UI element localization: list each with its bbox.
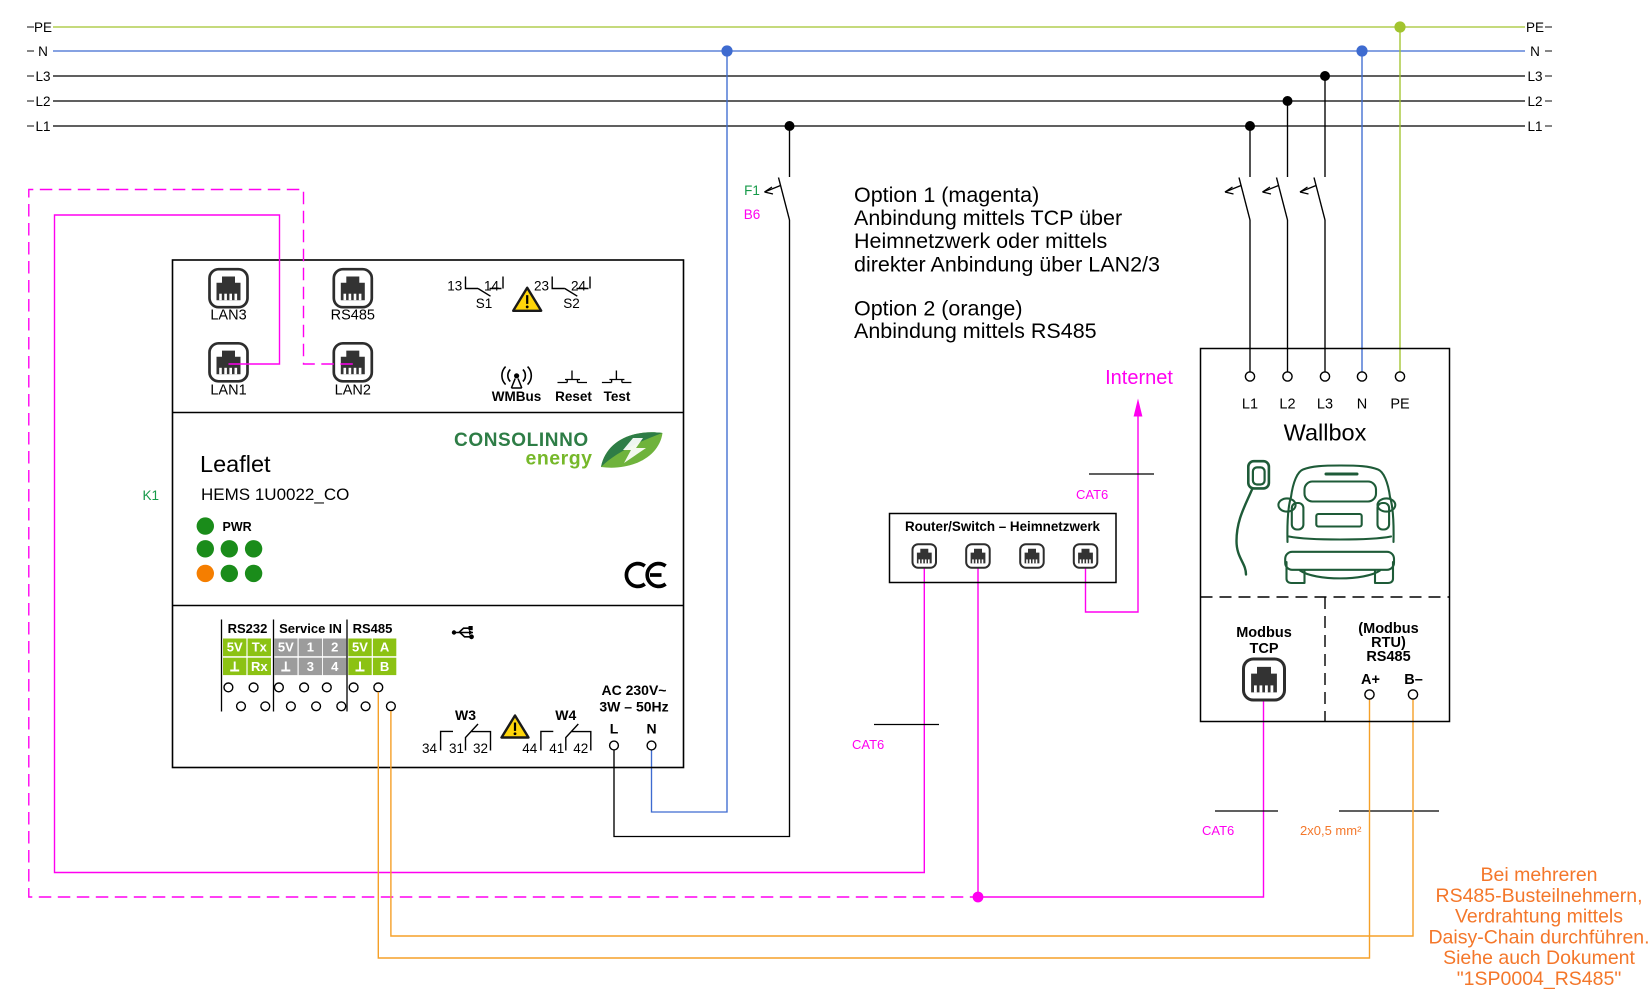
LED row2	[197, 540, 263, 557]
wire L1 drop to wallbox switch	[1249, 126, 1251, 372]
wallbox terminal L1 screw	[1245, 372, 1254, 381]
svg-text:N: N	[646, 721, 656, 737]
connector RS485 jack	[334, 269, 372, 307]
note option 2 text	[854, 296, 1097, 343]
warning triangle top	[513, 288, 541, 311]
note option 1 text	[854, 183, 1160, 276]
logo CONSOLINNO	[454, 430, 589, 451]
breaker F1 value B6	[744, 207, 761, 222]
contact S1 pin 14	[484, 279, 500, 294]
svg-text:L3: L3	[1317, 397, 1333, 413]
USB icon	[452, 626, 474, 639]
svg-text:L3: L3	[35, 69, 50, 84]
relay contact W4 label	[555, 707, 576, 723]
connector LAN3 label	[210, 308, 246, 324]
svg-text:Service IN: Service IN	[279, 621, 342, 636]
svg-text:HEMS 1U0022_CO: HEMS 1U0022_CO	[201, 485, 349, 504]
svg-text:RS485-Busteilnehmern,: RS485-Busteilnehmern,	[1435, 885, 1642, 907]
svg-text:F1: F1	[744, 183, 760, 198]
wallbox terminal PE label	[1390, 397, 1410, 413]
relay contact W4 pin 41	[549, 741, 564, 756]
wire N drop to wallbox	[1361, 51, 1363, 372]
junction magenta node	[973, 892, 984, 903]
svg-text:LAN3: LAN3	[210, 308, 246, 324]
junction N rail / leaflet N	[721, 45, 732, 56]
relay contact W3 pin 32	[473, 741, 488, 756]
wire F1 to leaflet L terminal	[614, 220, 790, 837]
svg-text:Wallbox: Wallbox	[1284, 420, 1367, 446]
cable marker CAT6 router1	[874, 724, 939, 726]
wallbox terminal L2 label	[1279, 397, 1295, 413]
net N label right	[1530, 44, 1540, 59]
wire PE drop to wallbox	[1399, 27, 1401, 372]
svg-text:13: 13	[447, 279, 462, 294]
svg-text:S2: S2	[563, 296, 580, 311]
net PE label left	[34, 20, 52, 35]
relay contact W3 symbol	[441, 724, 491, 751]
switch actuator arrow L3	[1300, 186, 1316, 195]
net N label left	[38, 44, 48, 59]
terminal L label	[610, 721, 619, 737]
svg-text:Option 2 (orange): Option 2 (orange)	[854, 296, 1023, 320]
wallbox terminal L1 label	[1242, 397, 1258, 413]
wire N rail to leaflet N terminal	[652, 51, 728, 812]
svg-text:CAT6: CAT6	[1076, 487, 1108, 502]
contact S2 symbol	[552, 277, 590, 297]
svg-text:Reset: Reset	[555, 389, 592, 404]
router port 1	[913, 544, 937, 568]
wire junction to router port2	[977, 566, 979, 897]
wallbox terminal PE screw	[1395, 372, 1404, 381]
terminal N label	[646, 721, 656, 737]
cable label CAT6 internet	[1076, 487, 1108, 502]
net L2 label right	[1527, 94, 1542, 109]
svg-text:Leaflet: Leaflet	[200, 451, 271, 477]
wire L2 drop to wallbox switch	[1287, 101, 1289, 372]
junction L1 rail / leaflet L via F1	[785, 121, 795, 131]
wire LAN1 to router port1 (magenta solid)	[55, 215, 925, 873]
device K1 label	[143, 488, 160, 503]
contact S1 label	[476, 296, 493, 311]
device router/switch box	[890, 514, 1117, 583]
svg-text:RS485: RS485	[331, 308, 375, 324]
wire L1 rail to F1	[789, 126, 791, 177]
svg-text:44: 44	[522, 741, 538, 756]
terminal header RS232	[228, 621, 268, 636]
svg-text:31: 31	[449, 741, 464, 756]
wire LAN2 dashed loop	[29, 190, 978, 898]
wallbox terminal B- label	[1404, 672, 1423, 688]
svg-text:Heimnetzwerk oder mittels: Heimnetzwerk oder mittels	[854, 229, 1107, 253]
logo energy	[526, 448, 593, 470]
wire router port4 to internet	[1086, 399, 1143, 613]
svg-text:2: 2	[331, 640, 338, 655]
svg-text:RS485: RS485	[353, 621, 393, 636]
junction L2 rail / wallbox L2	[1283, 96, 1293, 106]
svg-text:B: B	[380, 659, 389, 674]
svg-text:RS232: RS232	[228, 621, 268, 636]
terminal L screw	[610, 741, 619, 750]
router port 3	[1020, 544, 1043, 568]
warning triangle bottom	[502, 716, 529, 738]
connector RS485 jack label	[331, 308, 375, 324]
svg-text:LAN1: LAN1	[210, 383, 246, 399]
switch blade L3 wallbox	[1314, 178, 1325, 221]
terminal cells row2	[223, 658, 396, 675]
svg-text:PE: PE	[34, 20, 52, 35]
svg-text:23: 23	[534, 279, 549, 294]
LED row3	[197, 565, 263, 582]
net L1 label right	[1527, 119, 1542, 134]
svg-text:W4: W4	[555, 707, 576, 723]
svg-text:N: N	[38, 44, 48, 59]
wire RS485 A to wallbox A+ (orange)	[378, 692, 1369, 958]
svg-text:L1: L1	[1242, 397, 1258, 413]
contact S2 pin 23	[534, 279, 549, 294]
button Test icon	[602, 371, 632, 383]
wire RS485 B to wallbox B- (orange)	[391, 700, 1413, 937]
router port 2	[966, 544, 990, 568]
note RS485 daisy chain (orange)	[1428, 864, 1648, 990]
svg-text:energy: energy	[526, 448, 593, 470]
wallbox terminal L3 label	[1317, 397, 1333, 413]
contact S1 pin 13	[447, 279, 462, 294]
svg-text:PE: PE	[1526, 20, 1544, 35]
svg-text:5V: 5V	[278, 640, 294, 655]
svg-text:Rx: Rx	[251, 659, 268, 674]
net PE rail	[27, 26, 1552, 28]
svg-text:34: 34	[422, 741, 438, 756]
router title	[905, 519, 1101, 534]
connector LAN2 label	[335, 383, 371, 399]
button Reset icon	[558, 371, 588, 383]
svg-text:Option 1 (magenta): Option 1 (magenta)	[854, 183, 1039, 207]
terminal cells row1	[223, 639, 396, 657]
WMBus label	[492, 389, 542, 404]
wallbox terminal A+ screw	[1365, 690, 1374, 699]
terminal screws row2	[237, 702, 396, 711]
junction L3 rail / wallbox L3	[1320, 71, 1330, 81]
net L1 label left	[35, 119, 50, 134]
net L3 label right	[1527, 69, 1542, 84]
svg-text:LAN2: LAN2	[335, 383, 371, 399]
breaker F1 blade	[779, 178, 790, 221]
wallbox Modbus RTU label	[1358, 621, 1418, 665]
junction L1 rail / wallbox L1	[1245, 121, 1255, 131]
wallbox terminal A+ label	[1361, 672, 1380, 688]
device Leaflet HEMS enclosure	[173, 260, 684, 768]
device type HEMS 1U0022_CO	[201, 485, 349, 504]
svg-text:K1: K1	[143, 488, 160, 503]
svg-text:Daisy-Chain durchführen.: Daisy-Chain durchführen.	[1428, 926, 1648, 948]
svg-text:S1: S1	[476, 296, 493, 311]
contact S2 label	[563, 296, 580, 311]
svg-text:Router/Switch – Heimnetzwerk: Router/Switch – Heimnetzwerk	[905, 519, 1101, 534]
wallbox Modbus TCP label	[1236, 625, 1292, 657]
relay contact W3 label	[455, 707, 476, 723]
device name Leaflet	[200, 451, 271, 477]
svg-text:41: 41	[549, 741, 564, 756]
svg-text:5V: 5V	[352, 640, 368, 655]
svg-text:Anbindung mittels TCP über: Anbindung mittels TCP über	[854, 206, 1122, 230]
svg-text:5V: 5V	[227, 640, 243, 655]
contact S1 symbol	[466, 277, 504, 297]
svg-text:4: 4	[331, 659, 339, 674]
svg-text:Test: Test	[604, 389, 631, 404]
svg-text:AC 230V~: AC 230V~	[602, 682, 667, 698]
LED PWR label	[223, 520, 252, 534]
wallbox EV charging graphic	[1237, 461, 1396, 583]
LED PWR row1	[197, 517, 214, 534]
switch blade L2 wallbox	[1277, 178, 1288, 221]
cable label 2x0,5mm2	[1300, 823, 1362, 838]
svg-text:A: A	[380, 640, 390, 655]
relay contact W4 pin 42	[573, 741, 588, 756]
svg-text:Modbus: Modbus	[1236, 625, 1292, 641]
wire L3 drop to wallbox switch	[1324, 76, 1326, 372]
terminal header Service IN	[279, 621, 342, 636]
relay contact W4 pin 44	[522, 741, 538, 756]
connector LAN3	[210, 269, 248, 307]
cable marker 2x0,5mm2	[1339, 810, 1439, 812]
svg-text:B6: B6	[744, 207, 761, 222]
svg-text:L3: L3	[1527, 69, 1542, 84]
wire junction to modbus tcp	[978, 700, 1264, 897]
svg-text:direkter Anbindung über LAN2/3: direkter Anbindung über LAN2/3	[854, 252, 1160, 276]
relay contact W3 pin 34	[422, 741, 438, 756]
CE mark	[626, 564, 665, 587]
wallbox internal divider vertical	[1324, 597, 1326, 722]
breaker F1 label	[744, 183, 760, 198]
net L2 label left	[35, 94, 50, 109]
svg-text:N: N	[1530, 44, 1540, 59]
relay contact W3 pin 31	[449, 741, 464, 756]
switch actuator arrow L2	[1263, 186, 1279, 195]
button Reset label	[555, 389, 592, 404]
net L3 rail	[27, 75, 1552, 77]
connector LAN2	[334, 343, 372, 381]
svg-text:3: 3	[307, 659, 314, 674]
svg-text:L2: L2	[1527, 94, 1542, 109]
svg-text:W3: W3	[455, 707, 476, 723]
wallbox title	[1284, 420, 1367, 446]
svg-text:Internet: Internet	[1105, 367, 1173, 389]
svg-text:Tx: Tx	[252, 640, 268, 655]
svg-text:Bei mehreren: Bei mehreren	[1480, 864, 1597, 886]
svg-text:WMBus: WMBus	[492, 389, 542, 404]
terminal screws row1	[224, 683, 383, 692]
junction PE rail / wallbox PE	[1394, 21, 1405, 32]
cable marker CAT6 modbus	[1215, 810, 1278, 812]
logo leaf	[601, 432, 663, 467]
wallbox terminal N label	[1357, 397, 1367, 413]
svg-text:CAT6: CAT6	[1202, 823, 1234, 838]
svg-text:1: 1	[307, 640, 314, 655]
label AC 230V	[602, 682, 667, 698]
connector LAN1	[210, 343, 248, 381]
svg-text:Verdrahtung mittels: Verdrahtung mittels	[1455, 906, 1623, 928]
wallbox terminal L2 screw	[1283, 372, 1292, 381]
svg-text:L: L	[610, 721, 619, 737]
svg-text:PE: PE	[1390, 397, 1410, 413]
svg-text:A+: A+	[1361, 672, 1380, 688]
svg-text:24: 24	[571, 279, 587, 294]
terminal header RS485	[353, 621, 393, 636]
cable label CAT6 router1	[852, 737, 884, 752]
svg-text:Siehe auch Dokument: Siehe auch Dokument	[1443, 947, 1635, 969]
contact S2 pin 24	[571, 279, 587, 294]
terminal N screw	[647, 741, 656, 750]
switch blade L1 wallbox	[1239, 178, 1250, 221]
svg-text:2x0,5 mm²: 2x0,5 mm²	[1300, 823, 1362, 838]
wallbox Modbus TCP port	[1244, 659, 1285, 700]
svg-text:TCP: TCP	[1250, 641, 1279, 657]
switch actuator arrow L1	[1225, 186, 1241, 195]
svg-text:L2: L2	[35, 94, 50, 109]
label Internet	[1105, 367, 1173, 389]
net L3 label left	[35, 69, 50, 84]
svg-text:42: 42	[573, 741, 588, 756]
cable label CAT6 modbus	[1202, 823, 1234, 838]
svg-text:"1SP0004_RS485": "1SP0004_RS485"	[1457, 968, 1622, 990]
relay contact W4 symbol	[541, 724, 591, 751]
connector LAN1 label	[210, 383, 246, 399]
wallbox terminal L3 screw	[1320, 372, 1329, 381]
breaker F1 actuator arrow	[765, 186, 781, 195]
svg-text:L1: L1	[1527, 119, 1542, 134]
net PE label right	[1526, 20, 1544, 35]
button Test label	[604, 389, 631, 404]
svg-text:Anbindung mittels RS485: Anbindung mittels RS485	[854, 319, 1097, 343]
svg-text:L2: L2	[1279, 397, 1295, 413]
router port 4	[1074, 544, 1098, 568]
junction N rail / wallbox N	[1356, 45, 1367, 56]
label 3W 50Hz	[599, 699, 668, 715]
WMBus antenna icon	[502, 367, 531, 389]
wallbox terminal B- screw	[1408, 690, 1417, 699]
svg-text:3W – 50Hz: 3W – 50Hz	[599, 699, 668, 715]
device wallbox box	[1201, 349, 1450, 722]
terminal block separators	[222, 620, 348, 712]
svg-text:RS485: RS485	[1366, 649, 1410, 665]
wallbox terminal N screw	[1357, 372, 1366, 381]
net L1 rail	[27, 125, 1552, 127]
svg-text:B–: B–	[1404, 672, 1423, 688]
wallbox internal divider horizontal	[1201, 596, 1450, 598]
net N rail	[27, 50, 1552, 52]
cable marker CAT6 internet	[1089, 473, 1154, 475]
svg-text:14: 14	[484, 279, 500, 294]
svg-text:PWR: PWR	[223, 520, 252, 534]
net L2 rail	[27, 100, 1552, 102]
svg-text:L1: L1	[35, 119, 50, 134]
svg-text:N: N	[1357, 397, 1367, 413]
svg-text:32: 32	[473, 741, 488, 756]
svg-text:CAT6: CAT6	[852, 737, 884, 752]
